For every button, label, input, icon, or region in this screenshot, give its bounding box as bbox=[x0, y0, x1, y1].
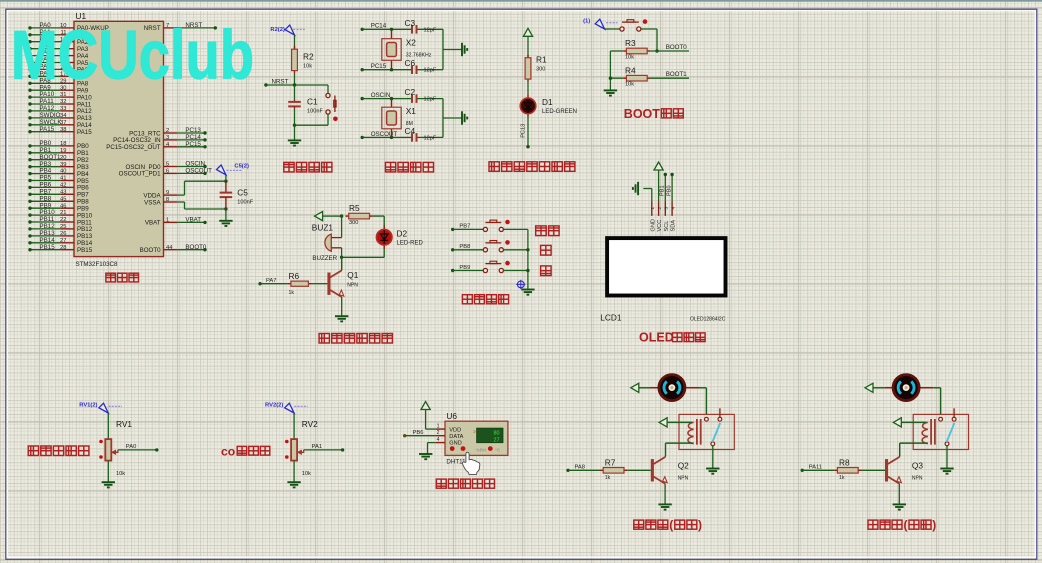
svg-text:R2: R2 bbox=[303, 52, 314, 62]
svg-text:RV2: RV2 bbox=[302, 419, 318, 429]
svg-text:>: > bbox=[473, 430, 476, 436]
svg-text:OSCOUT: OSCOUT bbox=[185, 168, 212, 175]
svg-text:10k: 10k bbox=[302, 471, 311, 477]
svg-text:SDA: SDA bbox=[671, 220, 677, 232]
svg-text:MCUclub: MCUclub bbox=[11, 17, 254, 94]
svg-text:VCC: VCC bbox=[657, 220, 663, 232]
svg-text:1: 1 bbox=[650, 207, 655, 210]
svg-text:10k: 10k bbox=[116, 471, 125, 477]
svg-text:43: 43 bbox=[60, 189, 66, 195]
svg-text:LED-RED: LED-RED bbox=[397, 240, 424, 246]
svg-text:VBAT: VBAT bbox=[185, 217, 201, 224]
svg-text:PB0: PB0 bbox=[666, 185, 672, 196]
svg-text:5: 5 bbox=[166, 162, 169, 168]
svg-text:8M: 8M bbox=[406, 121, 413, 127]
svg-text:1k: 1k bbox=[289, 290, 295, 296]
svg-text:OLED: OLED bbox=[639, 331, 674, 345]
svg-text:PB15: PB15 bbox=[40, 244, 56, 251]
svg-text:BOOT1: BOOT1 bbox=[666, 71, 688, 78]
svg-text:39: 39 bbox=[60, 162, 66, 168]
svg-text:BOOT1: BOOT1 bbox=[40, 154, 62, 161]
svg-text:4: 4 bbox=[670, 207, 675, 210]
svg-text:X2: X2 bbox=[406, 38, 417, 48]
svg-text:PA15: PA15 bbox=[77, 129, 92, 136]
svg-text:C1: C1 bbox=[307, 97, 318, 107]
svg-text:27: 27 bbox=[60, 238, 66, 244]
svg-text:2: 2 bbox=[437, 430, 440, 436]
svg-text:BOOT: BOOT bbox=[624, 107, 660, 121]
svg-text:C5: C5 bbox=[237, 187, 248, 197]
svg-text:25: 25 bbox=[60, 224, 66, 230]
svg-text:%RH: %RH bbox=[476, 447, 487, 452]
svg-text:(1): (1) bbox=[583, 19, 590, 25]
svg-text:C6: C6 bbox=[405, 58, 416, 68]
svg-text:33: 33 bbox=[60, 106, 66, 112]
svg-text:NPN: NPN bbox=[912, 475, 923, 481]
svg-text:PA12: PA12 bbox=[40, 105, 55, 112]
svg-text:): ) bbox=[698, 518, 702, 532]
svg-text:19: 19 bbox=[60, 148, 66, 154]
svg-text:PA0: PA0 bbox=[126, 444, 137, 450]
svg-text:45: 45 bbox=[60, 196, 66, 202]
svg-text:GND: GND bbox=[449, 441, 461, 447]
svg-text:10k: 10k bbox=[625, 54, 634, 60]
svg-text:80: 80 bbox=[494, 431, 500, 437]
svg-text:1k: 1k bbox=[839, 475, 845, 481]
svg-text:100nF: 100nF bbox=[307, 109, 323, 115]
svg-text:RV1: RV1 bbox=[116, 419, 132, 429]
svg-text:VSSA: VSSA bbox=[144, 199, 161, 206]
svg-text:8: 8 bbox=[166, 197, 169, 203]
svg-text:40: 40 bbox=[60, 169, 66, 175]
svg-text:RV2(2): RV2(2) bbox=[265, 403, 283, 409]
svg-text:BUZZER: BUZZER bbox=[312, 255, 337, 262]
svg-text:PC15-OSC32_OUT: PC15-OSC32_OUT bbox=[106, 144, 161, 151]
svg-text:U6: U6 bbox=[446, 411, 457, 421]
svg-text:C3: C3 bbox=[405, 18, 416, 28]
svg-text:NPN: NPN bbox=[347, 283, 358, 289]
svg-text:PA12: PA12 bbox=[77, 108, 92, 115]
svg-text:1: 1 bbox=[166, 218, 169, 224]
svg-text:2: 2 bbox=[166, 128, 169, 134]
svg-text:X1: X1 bbox=[406, 106, 417, 116]
svg-text:32: 32 bbox=[60, 99, 66, 105]
svg-text:PC13: PC13 bbox=[521, 124, 527, 138]
svg-text:Q3: Q3 bbox=[912, 461, 923, 471]
svg-text:PB1: PB1 bbox=[660, 185, 666, 196]
svg-text:co: co bbox=[221, 444, 235, 458]
svg-text:RV1(2): RV1(2) bbox=[79, 403, 97, 409]
svg-text:10k: 10k bbox=[303, 63, 312, 69]
svg-text:C4: C4 bbox=[405, 126, 416, 136]
svg-text:PA1: PA1 bbox=[312, 444, 323, 450]
svg-text:32.768KHz: 32.768KHz bbox=[406, 53, 432, 59]
svg-text:3: 3 bbox=[664, 207, 669, 210]
svg-text:(: ( bbox=[669, 518, 673, 532]
svg-text:R7: R7 bbox=[605, 457, 616, 467]
svg-text:GND: GND bbox=[650, 219, 656, 231]
svg-text:BOOT0: BOOT0 bbox=[140, 247, 162, 254]
svg-text:1: 1 bbox=[437, 424, 440, 430]
svg-text:NPN: NPN bbox=[678, 475, 689, 481]
svg-text:22: 22 bbox=[60, 217, 66, 223]
svg-text:12pF: 12pF bbox=[424, 135, 437, 141]
svg-text:38: 38 bbox=[60, 127, 66, 133]
svg-text:Q2: Q2 bbox=[678, 461, 689, 471]
svg-text:C5(2): C5(2) bbox=[234, 164, 249, 170]
svg-text:PB12: PB12 bbox=[77, 226, 93, 233]
svg-text:46: 46 bbox=[60, 203, 66, 209]
svg-text:LCD1: LCD1 bbox=[600, 312, 622, 322]
svg-text:21: 21 bbox=[60, 210, 66, 216]
svg-text:PB7: PB7 bbox=[40, 188, 52, 195]
svg-text:Q1: Q1 bbox=[347, 270, 358, 280]
svg-text:42: 42 bbox=[60, 183, 66, 189]
svg-text:2: 2 bbox=[657, 207, 662, 210]
svg-text:PB12: PB12 bbox=[40, 223, 56, 230]
svg-text:VDD: VDD bbox=[449, 427, 461, 433]
svg-text:OLED12864I2C: OLED12864I2C bbox=[690, 316, 726, 322]
svg-text:R2(2): R2(2) bbox=[270, 27, 285, 33]
svg-text:9: 9 bbox=[166, 190, 169, 196]
svg-text:STM32F103C8: STM32F103C8 bbox=[76, 261, 119, 268]
svg-text:°C: °C bbox=[495, 447, 501, 452]
svg-text:12pF: 12pF bbox=[424, 68, 437, 74]
svg-text:LED-GREEN: LED-GREEN bbox=[542, 109, 577, 115]
svg-text:41: 41 bbox=[60, 176, 66, 182]
svg-text:12pF: 12pF bbox=[424, 97, 437, 103]
svg-text:10k: 10k bbox=[625, 82, 634, 88]
svg-text:4: 4 bbox=[437, 437, 440, 443]
svg-text:300: 300 bbox=[349, 220, 358, 226]
svg-text:44: 44 bbox=[166, 245, 173, 251]
svg-text:): ) bbox=[932, 518, 936, 532]
svg-text:PC15: PC15 bbox=[185, 141, 201, 148]
svg-text:R4: R4 bbox=[625, 65, 636, 75]
svg-text:PA11: PA11 bbox=[809, 464, 822, 470]
svg-text:SCL: SCL bbox=[664, 221, 670, 232]
svg-text:PB7: PB7 bbox=[77, 192, 89, 199]
svg-text:D2: D2 bbox=[397, 228, 408, 238]
svg-text:12pF: 12pF bbox=[424, 27, 437, 33]
svg-text:R8: R8 bbox=[839, 457, 850, 467]
svg-text:R5: R5 bbox=[349, 203, 360, 213]
svg-text:VBAT: VBAT bbox=[145, 220, 161, 227]
svg-text:D1: D1 bbox=[542, 97, 553, 107]
svg-text:100nF: 100nF bbox=[237, 199, 253, 205]
svg-text:R1: R1 bbox=[536, 55, 547, 65]
svg-text:18: 18 bbox=[60, 141, 66, 147]
svg-text:R3: R3 bbox=[625, 38, 636, 48]
svg-text:6: 6 bbox=[166, 169, 169, 175]
svg-text:PB2: PB2 bbox=[77, 157, 89, 164]
svg-text:NRST: NRST bbox=[272, 78, 289, 85]
svg-text:26: 26 bbox=[60, 231, 66, 237]
svg-text:PA8: PA8 bbox=[575, 464, 586, 470]
svg-text:BUZ1: BUZ1 bbox=[312, 223, 334, 233]
svg-text:PA15: PA15 bbox=[40, 126, 55, 133]
svg-text:R6: R6 bbox=[289, 271, 300, 281]
svg-text:OSCOUT_PD1: OSCOUT_PD1 bbox=[119, 171, 162, 178]
svg-text:(: ( bbox=[904, 518, 908, 532]
svg-text:3: 3 bbox=[166, 135, 169, 141]
svg-text:28: 28 bbox=[60, 245, 66, 251]
svg-text:300: 300 bbox=[536, 67, 545, 73]
svg-text:20: 20 bbox=[60, 155, 66, 161]
svg-text:DATA: DATA bbox=[449, 434, 463, 440]
svg-text:1k: 1k bbox=[605, 475, 611, 481]
svg-text:C2: C2 bbox=[405, 87, 416, 97]
svg-text:PB6: PB6 bbox=[413, 430, 424, 436]
svg-text:BOOT0: BOOT0 bbox=[185, 244, 207, 251]
svg-text:PB15: PB15 bbox=[77, 247, 93, 254]
svg-text:BOOT0: BOOT0 bbox=[666, 44, 688, 51]
svg-text:27: 27 bbox=[494, 438, 500, 444]
